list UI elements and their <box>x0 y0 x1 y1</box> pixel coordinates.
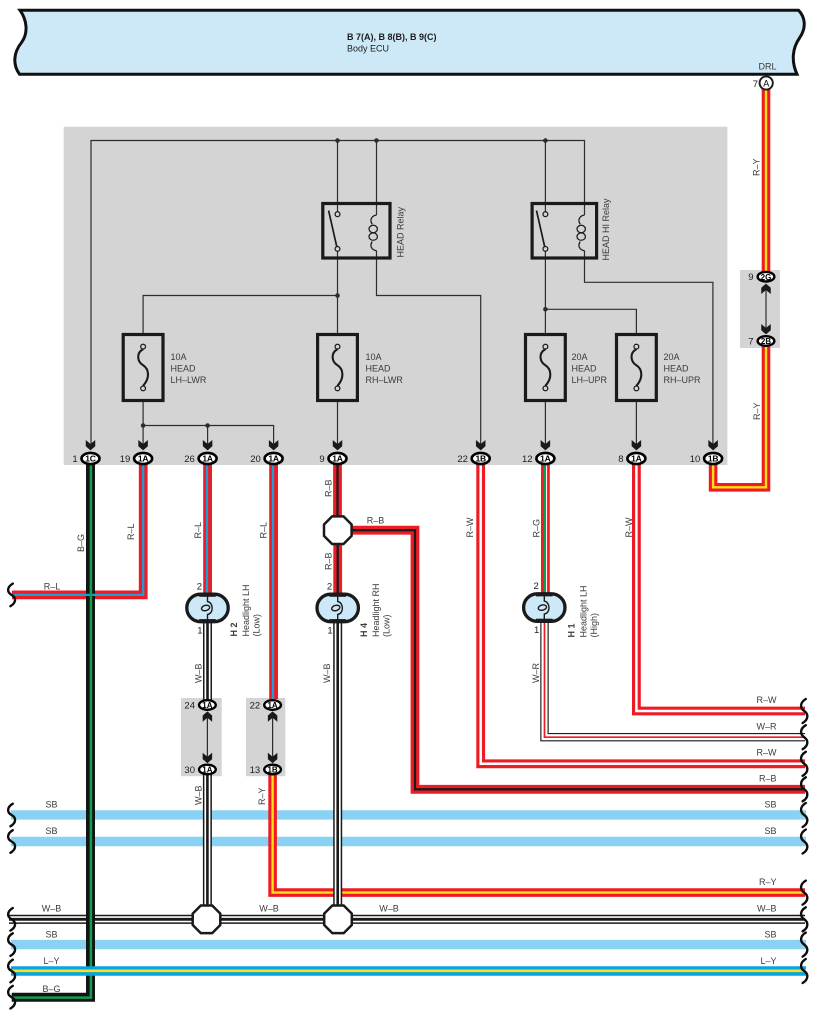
svg-text:8: 8 <box>618 454 623 465</box>
connector pass-through box 24/30 <box>181 698 222 776</box>
svg-text:SB: SB <box>45 826 57 836</box>
svg-text:30: 30 <box>184 765 195 776</box>
wire bus SB (3) <box>11 940 806 949</box>
svg-text:1A: 1A <box>202 766 212 775</box>
svg-text:2G: 2G <box>761 273 772 282</box>
svg-text:B–G: B–G <box>76 534 86 552</box>
svg-text:SB: SB <box>764 800 776 810</box>
svg-text:W–R: W–R <box>531 663 541 684</box>
svg-text:9: 9 <box>319 454 324 465</box>
wire: top bus from pin1 feed to HEAD HI relay coil <box>91 141 585 445</box>
svg-text:1: 1 <box>534 625 539 636</box>
svg-text:1A: 1A <box>268 454 279 464</box>
wire R-L from pin 19 to left edge <box>12 459 143 595</box>
svg-text:1: 1 <box>197 626 202 637</box>
svg-text:HEAD Relay: HEAD Relay <box>396 206 406 257</box>
fuse 10A HEAD RH-LWR <box>318 335 404 401</box>
wire W-R from headlight H1 to right edge <box>545 620 806 737</box>
svg-text:1A: 1A <box>138 454 149 464</box>
wire: LH-UPR fuse bottom to pin 12 <box>544 401 546 445</box>
svg-text:R–B: R–B <box>324 552 334 570</box>
svg-text:2: 2 <box>327 582 332 593</box>
node: junction LWR branch <box>335 293 340 298</box>
svg-text:HEAD: HEAD <box>171 364 197 374</box>
svg-text:H 1: H 1 <box>567 623 577 637</box>
svg-text:HEAD HI Relay: HEAD HI Relay <box>601 198 611 261</box>
pin 20 (1A) of junction block <box>250 440 282 465</box>
wire B-G from pin 1 to bottom left edge <box>12 459 91 998</box>
svg-text:20A: 20A <box>572 352 588 362</box>
svg-text:Headlight RH: Headlight RH <box>371 583 381 637</box>
svg-text:Headlight LH: Headlight LH <box>241 584 251 636</box>
Body ECU banner <box>15 10 804 74</box>
wire: HEAD relay switch bottom to LWR fuse node <box>337 251 339 334</box>
svg-text:DRL: DRL <box>758 62 776 72</box>
svg-text:HEAD: HEAD <box>572 364 598 374</box>
svg-text:2B: 2B <box>761 337 771 346</box>
wire: HEAD relay switch top <box>337 141 339 212</box>
label H1 Headlight LH (High) <box>567 585 600 637</box>
svg-text:2: 2 <box>534 581 539 592</box>
pin 1 (1C) of junction block <box>72 440 99 465</box>
junction octagon on R-B at headlight RH feed <box>324 516 352 544</box>
svg-text:SB: SB <box>764 826 776 836</box>
svg-text:R–Y: R–Y <box>752 158 762 176</box>
svg-text:1: 1 <box>72 454 77 465</box>
svg-text:(High): (High) <box>589 613 599 638</box>
svg-text:7: 7 <box>748 337 753 348</box>
svg-text:1B: 1B <box>475 454 486 464</box>
wire: HEAD HI relay switch bottom to UPR fuse node <box>544 251 546 334</box>
wire: UPR fuse branch right <box>545 309 636 334</box>
wire bus L-Y <box>11 966 806 976</box>
node: junction pin26 <box>205 423 210 428</box>
svg-text:H 2: H 2 <box>229 622 239 636</box>
node: top bus junction at HEAD relay coil <box>374 138 379 143</box>
wire R-L blue tracer (crosses over B-G) <box>12 459 143 595</box>
svg-text:SB: SB <box>45 800 57 810</box>
svg-text:R–Y: R–Y <box>752 402 762 420</box>
wire: RH-UPR fuse bottom to pin 8 <box>635 401 637 445</box>
svg-text:2: 2 <box>197 582 202 593</box>
svg-text:B–G: B–G <box>42 984 60 994</box>
wire W-B from headlight H4 to ground octagon <box>333 620 342 919</box>
ground octagon left on W-B bus <box>193 906 221 934</box>
svg-text:B 7(A), B 8(B), B 9(C): B 7(A), B 8(B), B 9(C) <box>347 32 437 42</box>
wire break symbols at right edge <box>801 699 807 983</box>
svg-text:10A: 10A <box>171 352 187 362</box>
wire: RH-LWR fuse bottom to pin 9 <box>337 401 339 445</box>
svg-text:19: 19 <box>120 454 131 465</box>
wire R-W from pin 22 to right edge <box>481 459 805 764</box>
wire: HEAD relay coil top <box>376 141 378 216</box>
svg-text:R–B: R–B <box>324 479 334 497</box>
wire R-Y from 7(2B) down and to pin 10 <box>713 341 766 487</box>
fuse 20A HEAD RH-UPR <box>617 335 702 401</box>
pin 10 (1B) of junction block <box>690 440 722 465</box>
svg-text:1A: 1A <box>332 454 343 464</box>
svg-text:R–G: R–G <box>532 519 542 538</box>
node: top bus junction at HEAD relay switch <box>335 138 340 143</box>
wire bus W-B (ground bus) <box>9 915 805 924</box>
wire W-B from connector 30(1A) to ground octagon <box>203 770 212 919</box>
svg-text:1: 1 <box>327 626 332 637</box>
svg-text:R–W: R–W <box>757 695 778 705</box>
svg-text:R–Y: R–Y <box>257 787 267 805</box>
svg-text:SB: SB <box>45 930 57 940</box>
svg-text:R–L: R–L <box>193 522 203 539</box>
svg-text:20: 20 <box>250 454 261 465</box>
svg-text:W–B: W–B <box>757 904 777 914</box>
svg-text:10A: 10A <box>366 352 382 362</box>
relay HEAD Relay <box>323 204 406 259</box>
svg-text:W–B: W–B <box>42 904 62 914</box>
node: junction pin19 <box>141 423 146 428</box>
pin 19 (1A) of junction block <box>120 440 152 465</box>
svg-text:9: 9 <box>748 272 753 283</box>
svg-text:R–W: R–W <box>465 517 475 538</box>
wire R-B from pin 9 to junction octagon <box>333 459 342 531</box>
svg-text:1A: 1A <box>540 454 551 464</box>
svg-text:1B: 1B <box>708 454 719 464</box>
svg-text:R–B: R–B <box>367 516 385 526</box>
svg-text:W–B: W–B <box>193 663 203 683</box>
pin 26 (1A) of junction block <box>184 440 216 465</box>
wire: pin 26 drop <box>207 426 209 445</box>
svg-text:RH–LWR: RH–LWR <box>366 375 404 385</box>
bulb H4 Headlight RH (Low) <box>317 593 358 622</box>
relay HEAD HI Relay <box>532 198 611 261</box>
fuse 20A HEAD LH-UPR <box>526 335 608 401</box>
svg-text:1A: 1A <box>202 454 213 464</box>
svg-text:10: 10 <box>690 454 701 465</box>
svg-text:26: 26 <box>184 454 195 465</box>
svg-text:1B: 1B <box>267 766 277 775</box>
wire R-B from octagon to headlight H4 <box>333 530 342 596</box>
svg-text:R–W: R–W <box>757 748 778 758</box>
svg-text:L–Y: L–Y <box>760 956 776 966</box>
wire: HEAD HI relay coil bottom to pin 10 <box>585 251 713 445</box>
wire: HEAD HI relay switch top <box>544 141 546 212</box>
svg-text:R–L: R–L <box>44 581 61 591</box>
svg-text:RH–UPR: RH–UPR <box>664 375 702 385</box>
label H4 Headlight RH (Low) <box>359 583 392 637</box>
label H2 Headlight LH (Low) <box>229 584 262 636</box>
svg-text:W–R: W–R <box>757 722 778 732</box>
svg-text:R–L: R–L <box>259 522 269 539</box>
svg-text:1A: 1A <box>202 701 212 710</box>
node: top bus junction at HEAD HI relay switch <box>543 138 548 143</box>
svg-text:H 4: H 4 <box>359 623 369 637</box>
svg-text:W–B: W–B <box>322 663 332 683</box>
svg-text:R–W: R–W <box>624 517 634 538</box>
wire R-Y from DRL connector A to 9(2G) <box>762 86 771 277</box>
svg-text:1A: 1A <box>631 454 642 464</box>
connector circle A (DRL output) <box>760 76 773 89</box>
svg-text:HEAD: HEAD <box>664 364 690 374</box>
bulb H1 Headlight LH (High) <box>524 593 565 623</box>
svg-text:L–Y: L–Y <box>43 956 59 966</box>
pin 9 (1A) of junction block <box>319 440 346 465</box>
wire break symbols at left edge <box>8 584 15 1009</box>
connector pair 22(1A)/13(1B) arrows and ovals <box>250 700 281 776</box>
svg-text:R–Y: R–Y <box>759 877 777 887</box>
svg-text:20A: 20A <box>664 352 680 362</box>
connector pair 24(1A)/30(1A) arrows and ovals <box>184 700 215 776</box>
wire R-Y from connector 13(1B) to right edge <box>273 770 805 893</box>
wire R-G from pin 12 to headlight H1 <box>545 459 547 596</box>
svg-text:LH–LWR: LH–LWR <box>171 375 207 385</box>
connector pair 9(2G)/7(2B) arrows and ovals <box>748 272 774 348</box>
pin 22 (1B) of junction block <box>457 440 489 465</box>
svg-text:Body ECU: Body ECU <box>347 44 389 54</box>
svg-text:HEAD: HEAD <box>366 364 392 374</box>
svg-text:1C: 1C <box>85 454 96 464</box>
wire bus SB (2) <box>11 837 806 846</box>
wire R-W from pin 8 to right edge <box>636 459 805 712</box>
wire R-L from pin 20 to connector 22(1A) <box>269 459 278 700</box>
ground octagon right on W-B bus <box>324 906 352 934</box>
fuse 10A HEAD LH-LWR <box>123 335 207 401</box>
pin 12 (1A) of junction block <box>522 440 554 465</box>
svg-text:W–B: W–B <box>259 904 279 914</box>
pin 8 (1A) of junction block <box>618 440 645 465</box>
connector pass-through box 22/13 <box>246 698 285 776</box>
svg-text:W–B: W–B <box>194 785 204 805</box>
wire W-B from headlight H2 to connector 24(1A) <box>203 620 212 700</box>
wire bus SB (1) <box>11 810 806 819</box>
svg-text:R–B: R–B <box>759 774 777 784</box>
svg-text:R–L: R–L <box>126 523 136 540</box>
svg-text:22: 22 <box>250 701 261 712</box>
svg-text:22: 22 <box>457 454 468 465</box>
junction block (relay/fuse box) <box>64 127 728 465</box>
svg-text:(Low): (Low) <box>382 614 392 637</box>
wire: HEAD relay coil bottom to pin 22 <box>377 251 481 445</box>
wire: LH-LWR fuse bottom branch to pins 19/26/20 <box>143 401 274 445</box>
bulb H2 Headlight LH (Low) <box>187 593 228 622</box>
wire R-L from pin 26 to headlight H2 <box>203 459 212 597</box>
svg-text:W–B: W–B <box>379 904 399 914</box>
connector pass-through box 9(2G)/7(2B) <box>740 270 780 348</box>
node: junction UPR branch <box>543 307 548 312</box>
svg-text:LH–UPR: LH–UPR <box>572 375 608 385</box>
wire R-B from octagon right to R-B bus right edge <box>338 530 805 789</box>
svg-text:(Low): (Low) <box>252 614 262 637</box>
wire: LWR fuse branch left <box>143 296 337 335</box>
svg-text:1A: 1A <box>267 701 277 710</box>
wire: pin 19 drop <box>142 426 144 445</box>
svg-text:13: 13 <box>250 765 261 776</box>
svg-text:SB: SB <box>764 930 776 940</box>
svg-text:Headlight LH: Headlight LH <box>579 585 589 637</box>
wire B-G green tracer <box>12 459 91 998</box>
svg-text:A: A <box>763 78 769 88</box>
svg-text:24: 24 <box>184 701 195 712</box>
svg-text:7: 7 <box>753 79 758 90</box>
svg-text:12: 12 <box>522 454 533 465</box>
